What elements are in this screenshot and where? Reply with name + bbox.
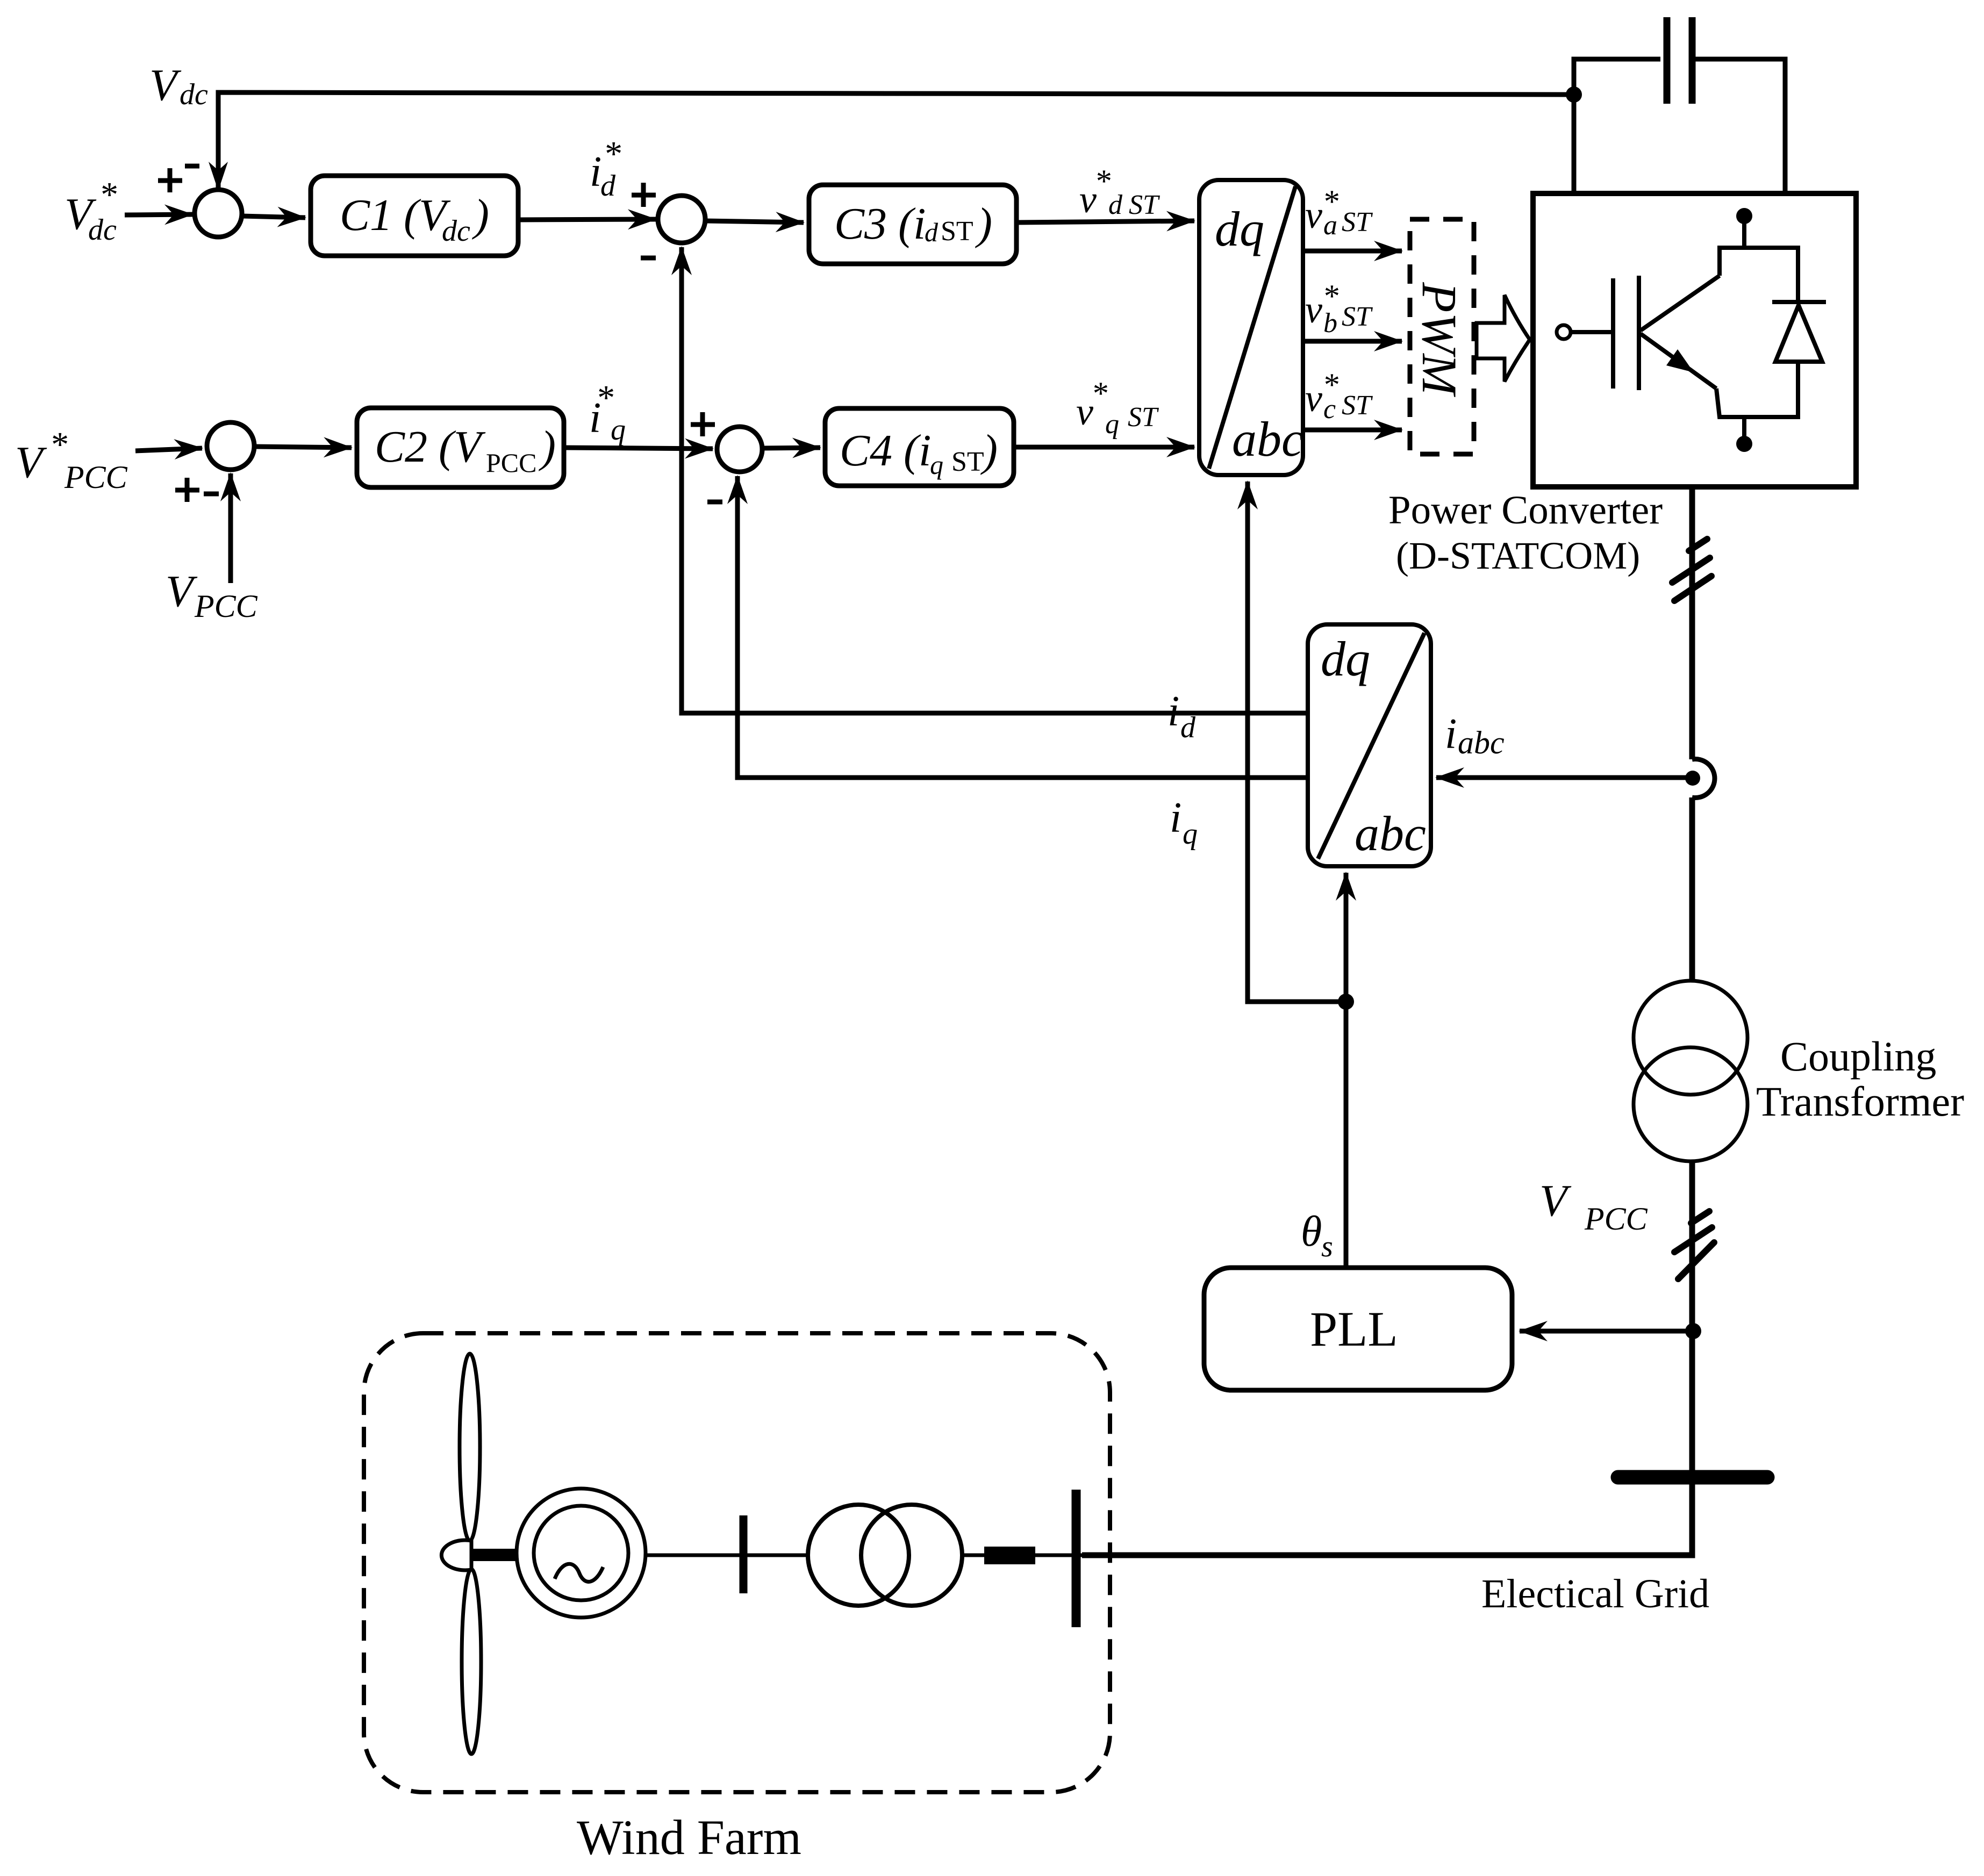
svg-text:θ: θ — [1301, 1208, 1322, 1255]
svg-text:q: q — [1105, 409, 1119, 440]
svg-text:i: i — [1170, 794, 1181, 842]
svg-text:V: V — [149, 60, 182, 110]
svg-text:abc: abc — [1355, 806, 1426, 861]
svg-text:dc: dc — [180, 78, 208, 111]
svg-text:PCC: PCC — [64, 459, 128, 495]
svg-text:Wind Farm: Wind Farm — [577, 1810, 801, 1865]
svg-text:V: V — [15, 437, 47, 487]
svg-text:i: i — [1445, 710, 1457, 758]
svg-text:abc: abc — [1232, 412, 1303, 466]
svg-text:*: * — [99, 175, 117, 214]
svg-text:ST: ST — [1342, 207, 1373, 238]
svg-text:C1 (V: C1 (V — [340, 190, 451, 240]
svg-text:v: v — [1305, 288, 1322, 331]
svg-text:dc: dc — [88, 213, 117, 247]
svg-text:ST: ST — [1129, 190, 1160, 220]
svg-text:Electical Grid: Electical Grid — [1481, 1571, 1709, 1616]
svg-text:V: V — [166, 566, 198, 616]
svg-text:q: q — [930, 450, 943, 480]
svg-text:d: d — [600, 169, 616, 203]
svg-text:ST: ST — [1128, 402, 1159, 433]
svg-text:v: v — [1305, 377, 1322, 420]
svg-text:s: s — [1321, 1230, 1333, 1263]
svg-text:ST: ST — [941, 216, 973, 247]
svg-text:*: * — [49, 425, 67, 464]
svg-text:ST: ST — [1342, 301, 1373, 332]
svg-text:c: c — [1323, 394, 1336, 425]
svg-text:PCC: PCC — [1584, 1201, 1648, 1237]
svg-text:d: d — [1180, 711, 1196, 744]
svg-text:dq: dq — [1215, 202, 1264, 256]
svg-text:PWM: PWM — [1412, 282, 1467, 397]
svg-text:Power Converter: Power Converter — [1388, 488, 1663, 533]
svg-text:Coupling: Coupling — [1780, 1033, 1936, 1080]
svg-text:a: a — [1323, 210, 1337, 241]
svg-text:*: * — [1091, 376, 1107, 411]
svg-text:d: d — [1108, 190, 1123, 220]
svg-text:q: q — [611, 413, 626, 447]
svg-text:v: v — [1305, 193, 1322, 236]
svg-text:(D-STATCOM): (D-STATCOM) — [1396, 534, 1640, 577]
svg-text:PLL: PLL — [1310, 1302, 1398, 1356]
svg-text:): ) — [975, 199, 992, 249]
svg-text:d: d — [925, 217, 939, 247]
svg-text:abc: abc — [1458, 725, 1505, 760]
svg-text:*: * — [596, 378, 613, 418]
svg-text:b: b — [1323, 308, 1337, 339]
svg-text:PCC: PCC — [194, 588, 258, 624]
svg-text:ST: ST — [951, 447, 984, 477]
svg-text:C3 (i: C3 (i — [834, 199, 926, 249]
svg-text:i: i — [1168, 688, 1179, 735]
svg-text:): ) — [472, 190, 489, 240]
svg-text:dc: dc — [442, 214, 470, 248]
svg-text:C2 (V: C2 (V — [375, 422, 486, 472]
svg-text:ST: ST — [1342, 390, 1373, 421]
svg-text:): ) — [980, 426, 998, 476]
svg-text:q: q — [1183, 817, 1198, 851]
svg-text:V: V — [1539, 1176, 1572, 1226]
svg-text:PCC: PCC — [486, 448, 537, 478]
svg-text:i: i — [590, 148, 601, 196]
svg-text:): ) — [539, 422, 556, 472]
svg-text:*: * — [603, 134, 621, 174]
svg-text:Transformer: Transformer — [1756, 1078, 1964, 1125]
svg-text:C4 (i: C4 (i — [840, 426, 931, 476]
svg-text:dq: dq — [1321, 631, 1370, 686]
